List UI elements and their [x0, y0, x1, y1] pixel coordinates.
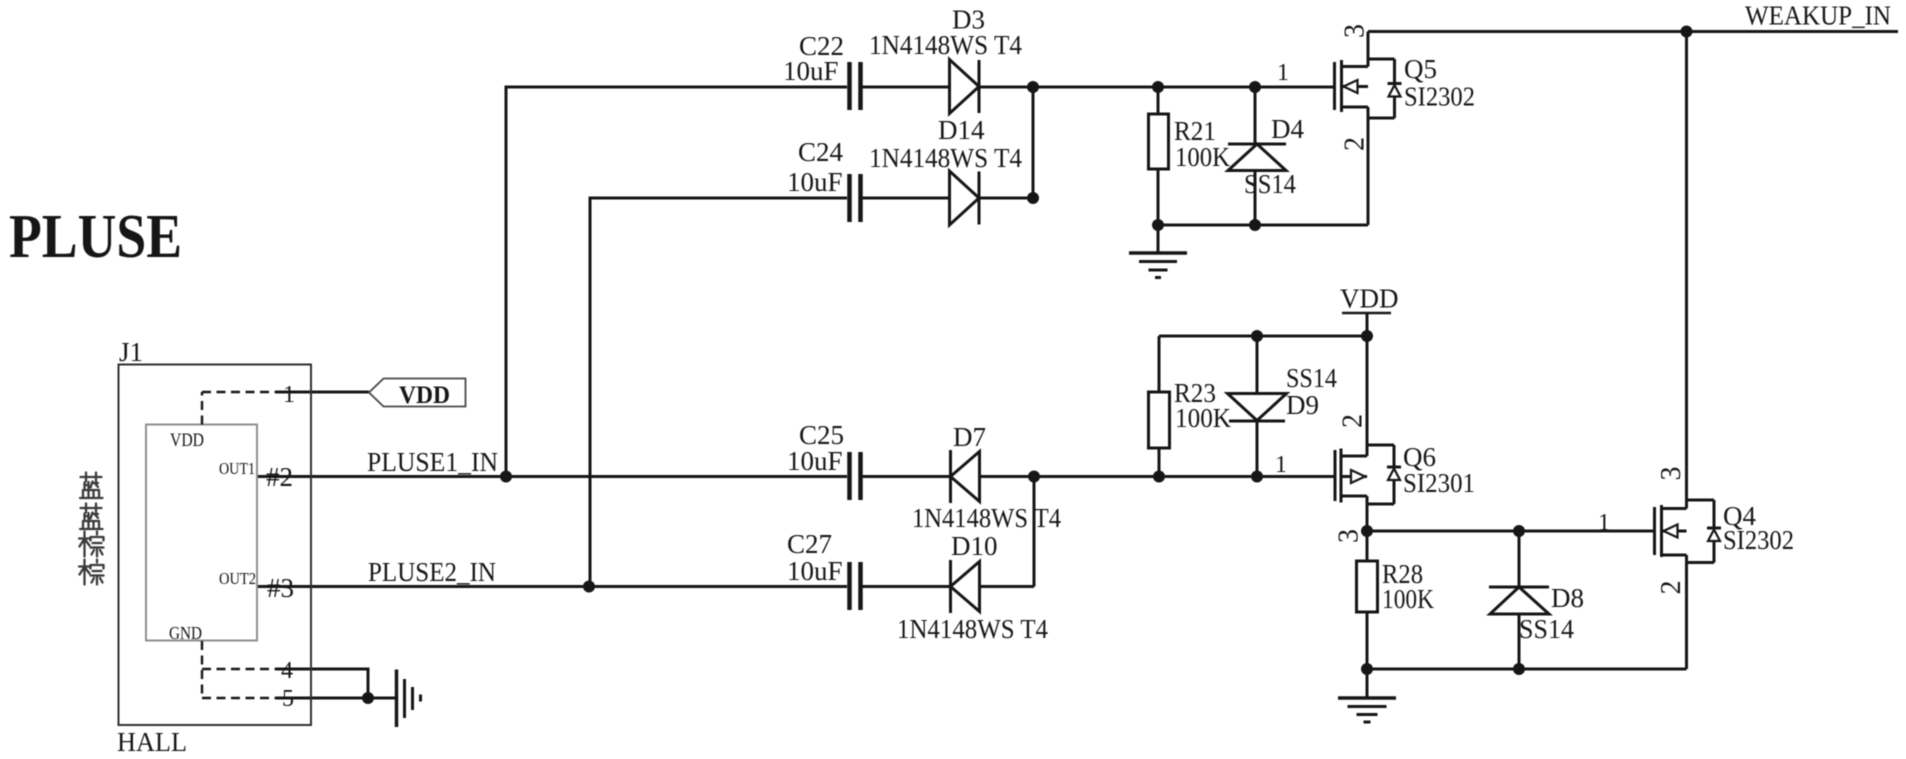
- svg-text:#2: #2: [266, 462, 293, 492]
- svg-text:D14: D14: [938, 115, 985, 145]
- svg-text:SS14: SS14: [1519, 614, 1574, 644]
- svg-text:1N4148WS T4: 1N4148WS T4: [897, 614, 1048, 644]
- svg-text:GND: GND: [169, 623, 202, 643]
- svg-text:D8: D8: [1551, 583, 1584, 613]
- svg-text:D4: D4: [1271, 114, 1304, 144]
- svg-text:D9: D9: [1286, 390, 1319, 420]
- svg-text:D7: D7: [953, 422, 986, 452]
- svg-text:HALL: HALL: [117, 727, 187, 757]
- svg-text:1: 1: [283, 382, 295, 408]
- svg-text:3: 3: [1340, 24, 1371, 38]
- svg-text:100K: 100K: [1175, 142, 1230, 172]
- svg-text:4: 4: [281, 658, 293, 684]
- svg-text:OUT2: OUT2: [219, 569, 256, 588]
- svg-text:10uF: 10uF: [787, 446, 843, 476]
- svg-text:VDD: VDD: [170, 430, 204, 451]
- svg-text:3: 3: [1656, 467, 1687, 481]
- svg-text:1: 1: [1598, 510, 1610, 536]
- svg-text:OUT1: OUT1: [219, 459, 255, 478]
- svg-text:3: 3: [1334, 529, 1365, 543]
- svg-text:SI2302: SI2302: [1404, 82, 1475, 112]
- svg-text:VDD: VDD: [1340, 284, 1399, 314]
- svg-text:1: 1: [1277, 60, 1289, 86]
- svg-text:1N4148WS T4: 1N4148WS T4: [869, 143, 1022, 173]
- svg-text:1: 1: [1275, 452, 1287, 478]
- svg-text:SS14: SS14: [1244, 169, 1296, 199]
- svg-text:2: 2: [1338, 414, 1369, 428]
- svg-text:C27: C27: [787, 529, 832, 559]
- svg-text:SI2301: SI2301: [1403, 468, 1475, 498]
- svg-text:WEAKUP_IN: WEAKUP_IN: [1745, 1, 1891, 31]
- svg-text:#3: #3: [267, 573, 294, 603]
- svg-text:C24: C24: [798, 137, 844, 167]
- svg-text:2: 2: [1656, 581, 1687, 595]
- svg-text:SS14: SS14: [1286, 363, 1337, 393]
- svg-text:PLUSE2_IN: PLUSE2_IN: [368, 557, 496, 587]
- svg-text:10uF: 10uF: [783, 56, 839, 86]
- svg-text:2: 2: [1340, 137, 1371, 151]
- svg-text:10uF: 10uF: [787, 167, 843, 197]
- svg-text:100K: 100K: [1175, 403, 1231, 433]
- svg-text:SI2302: SI2302: [1723, 525, 1794, 555]
- svg-text:1N4148WS T4: 1N4148WS T4: [869, 30, 1022, 60]
- svg-text:10uF: 10uF: [787, 556, 843, 586]
- svg-text:5: 5: [282, 686, 294, 712]
- svg-text:Q5: Q5: [1404, 54, 1437, 84]
- svg-text:PLUSE: PLUSE: [9, 203, 182, 271]
- svg-text:D10: D10: [951, 531, 998, 561]
- svg-text:J1: J1: [119, 337, 143, 367]
- svg-text:PLUSE1_IN: PLUSE1_IN: [367, 447, 498, 477]
- svg-text:100K: 100K: [1382, 584, 1434, 614]
- svg-text:VDD: VDD: [399, 382, 450, 409]
- svg-text:1N4148WS T4: 1N4148WS T4: [912, 503, 1061, 533]
